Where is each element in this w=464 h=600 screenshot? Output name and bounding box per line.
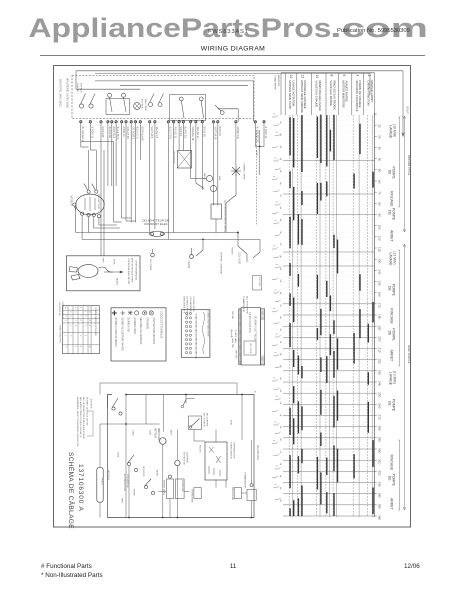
pressure switch wires [202,239,204,250]
svg-text:12: 12 [300,75,304,79]
svg-text:320: 320 [378,470,382,475]
svg-text:MOTEUR: MOTEUR [90,399,92,409]
legend text lines [114,318,154,352]
svg-text:FWS833AS1: FWS833AS1 [208,29,249,35]
svg-text:COURANT ELEC: COURANT ELEC [144,222,169,226]
chart header small row [280,73,282,115]
timer contact terminal [122,93,126,97]
wire drop x113.7 [113,142,115,223]
junction dots [237,232,239,234]
thermostat box [211,204,222,219]
wire right hook [259,239,261,252]
pump motor circle [175,460,180,465]
dashed option wire [255,130,257,225]
wire noir drop right [258,130,260,175]
svg-text:PERIODE CYCLE: PERIODE CYCLE [407,155,410,176]
svg-text:SUPPORT TERMINAL: SUPPORT TERMINAL [220,252,223,275]
svg-text:MOTEUR SENS ARRIERE: MOTEUR SENS ARRIERE [300,81,304,113]
svg-text:50: 50 [378,169,382,173]
svg-text:EPISSURE: EPISSURE [146,318,148,330]
lid switch symbols [127,462,130,465]
svg-text:BL ROUGE 14: BL ROUGE 14 [81,127,84,143]
svg-text:VIS TERRE: VIS TERRE [149,259,151,271]
svg-text:RINCAGE: RINCAGE [390,191,394,207]
wire elbow 80.8 to motor [81,146,89,148]
svg-text:MOTEUR MINUTERIE: MOTEUR MINUTERIE [341,81,345,108]
wire valve links [190,171,192,179]
cycle start arrow [402,71,404,136]
svg-text:30: 30 [378,147,382,151]
svg-text:120 VCA: 120 VCA [258,277,261,286]
connector wavy bracket [203,312,205,354]
schema top bus wire [100,383,237,395]
wire star to bus [235,175,237,195]
svg-text:THERMOSTAT: THERMOSTAT [191,489,194,503]
svg-text:VIOLET 2B: VIOLET 2B [126,127,129,139]
water valve V1 solenoids [206,175,212,181]
svg-text:CONNECTEUR: CONNECTEUR [133,318,135,335]
svg-text:MOTEUR: MOTEUR [107,470,109,480]
svg-text:COMMUTATEUR VITESSES: COMMUTATEUR VITESSES [94,308,97,337]
svg-text:SCHÉMA DE CÂBLAGE: SCHÉMA DE CÂBLAGE [67,452,76,529]
svg-text:BORNE DE COUPURE RAPIDE: BORNE DE COUPURE RAPIDE [120,318,123,352]
wire runs from timer terminals [81,123,264,256]
svg-text:CODES DE TERMINAUX: CODES DE TERMINAUX [160,311,163,339]
svg-text:360: 360 [378,515,382,520]
svg-text:MARCHE-ARRET: MARCHE-ARRET [370,81,374,103]
pump switch COMMUT POMPE [189,416,202,430]
svg-text:NOIR: NOIR [149,430,151,436]
svg-text:190: 190 [378,325,382,330]
wire to 115v drop [237,233,239,247]
svg-text:NOIR: NOIR [113,259,115,265]
svg-text:MINUTERIE: MINUTERIE [144,99,146,112]
svg-text:BRUN 18: BRUN 18 [202,127,205,138]
svg-text:REMPLISSAGE LAVAGE: REMPLISSAGE LAVAGE [318,81,322,112]
svg-text:BLEU: BLEU [170,430,172,436]
wire bus drop right [253,81,255,122]
timer motor hatch [135,104,139,108]
svg-text:AppliancePartsPros: AppliancePartsPros [29,13,332,43]
timer terminal row [80,121,266,123]
svg-text:MINUTERIE VUE: MINUTERIE VUE [183,297,185,314]
svg-text:DE: DE [387,401,391,406]
terminal strip right rail [261,309,265,365]
svg-text:MINUTERIE LAVE-LINGE: MINUTERIE LAVE-LINGE [59,79,62,107]
wire bus drop left [75,71,77,89]
terminal wire labels [81,127,267,143]
vca boxed label [253,276,262,291]
svg-text:NOIR 20: NOIR 20 [218,127,221,137]
legend symbol plus [121,311,126,316]
strip dimension arrow [231,330,233,337]
svg-text:BORNE A FOND DE MANCT: BORNE A FOND DE MANCT [114,318,117,348]
svg-text:13 MOT (MK): 13 MOT (MK) [234,330,236,343]
svg-text:8: 8 [330,75,334,77]
svg-text:POMPE DE VIDANGE: POMPE DE VIDANGE [358,81,362,108]
power cord plug drawing [78,264,98,277]
svg-text:LAVAGE-AGITATION: LAVAGE-AGITATION [292,81,296,106]
wire jumpers under timer [122,217,132,219]
svg-text:ARRET: ARRET [390,230,394,242]
svg-text:TER TES: TER TES [235,350,237,359]
chart dotted time gridlines [283,115,375,517]
timer switch contacts S2b pair [149,103,153,107]
timer sub-box contacts S3 [170,95,206,121]
terminal strip sub-box [244,341,256,355]
svg-text:DE LA MINUTERIE OU DES CONTACT: DE LA MINUTERIE OU DES CONTACTS [79,397,82,438]
motor top switch levers [84,184,88,191]
svg-text:(12 MIN): (12 MIN) [393,251,397,264]
svg-text:L'AXE: L'AXE [132,430,135,436]
svg-text:(16 MIN): (16 MIN) [393,124,397,137]
svg-text:170: 170 [378,303,382,308]
svg-text:TER MO: TER MO [231,311,233,319]
svg-text:(CH 1 PH): (CH 1 PH) [249,343,251,353]
svg-text:DE CHARPIE: DE CHARPIE [206,413,209,427]
svg-text:SOLENOIDE: SOLENOIDE [173,151,175,164]
svg-text:NOIR-BLANC: NOIR-BLANC [140,127,143,142]
timer switch contact S1b [89,104,93,108]
svg-text:CONNECTEUR MINUTERIE: CONNECTEUR MINUTERIE [207,310,209,337]
wire thermostat feeds [213,204,215,206]
svg-text:VALVE EAU FROIDE: VALVE EAU FROIDE [329,81,333,107]
svg-text:PRESSOSTAT: PRESSOSTAT [231,487,234,501]
svg-text:RINCAGE EAU FROIDE: RINCAGE EAU FROIDE [332,81,336,111]
connector J1 block [181,310,210,358]
chart cam numbers and function labels [289,75,371,79]
motor terminals [87,190,90,193]
svg-text:10 N-BL: 10 N-BL [195,352,197,360]
svg-text:WIRING DIAGRAM: WIRING DIAGRAM [201,46,266,53]
timer wire to S4 [218,108,239,110]
wire top bus 2 [95,72,370,74]
svg-text:CONTACT: CONTACT [76,83,79,94]
schema top switch [112,407,115,410]
svg-text:POMPE: POMPE [391,399,395,412]
svg-text:SUIVANT LE CYCLE CHOISI: SUIVANT LE CYCLE CHOISI [85,397,88,426]
timer contact terminal [199,97,203,101]
transformer T2 box [177,151,191,169]
timer motor circle MOTEUR MINUTERIE [160,438,167,445]
svg-text:100: 100 [378,225,382,230]
svg-text:ARRET: ARRET [390,350,394,362]
svg-text:10: 10 [315,75,319,79]
connector pin labels [195,313,197,360]
svg-text:90: 90 [378,214,382,218]
svg-text:MOTEUR: MOTEUR [70,196,73,207]
timer motor M1 symbol [134,103,141,110]
svg-text:ESSORAGE-VIDANGE: ESSORAGE-VIDANGE [303,81,307,109]
svg-text:MOTEUR SENS AVANT: MOTEUR SENS AVANT [288,81,292,110]
svg-text:290: 290 [378,437,382,442]
svg-text:310: 310 [378,459,382,464]
svg-text:260: 260 [378,403,382,408]
svg-text:GRIS 10B: GRIS 10B [101,127,104,138]
svg-text:MOTEUR: MOTEUR [141,99,143,109]
dispenser box with top circle [166,479,173,499]
overload OL star symbol [231,166,241,176]
svg-text:(TE) 120 VCA: (TE) 120 VCA [256,445,259,460]
svg-text:LAVAGE: LAVAGE [388,125,392,139]
svg-text:BLANC 8A: BLANC 8A [108,127,111,139]
legend table grid [63,306,100,354]
svg-text:VERT: VERT [121,498,123,504]
temperature switch box [205,442,227,480]
chart header top line [281,72,375,74]
svg-text:TEMPERATURE: TEMPERATURE [233,442,236,459]
svg-text:DE: DE [387,331,391,336]
svg-text:14: 14 [289,75,293,79]
svg-text:300: 300 [378,448,382,453]
svg-text:(VOIR REMARQUE): (VOIR REMARQUE) [134,260,137,280]
svg-text:330: 330 [378,482,382,487]
svg-text:VERT: VERT [102,258,104,264]
wire thermostat to bus [215,219,217,233]
svg-text:20: 20 [378,135,382,139]
svg-text:NOIR: NOIR [230,420,232,426]
schema junction dots [125,423,127,425]
svg-text:COUVERCLE: COUVERCLE [126,474,128,488]
chart contact symbol column [272,114,281,500]
svg-text:270: 270 [378,415,382,420]
svg-text:DE L'ESSOREUSE: DE L'ESSOREUSE [245,296,247,315]
header rule line [40,55,425,57]
right small component [247,489,256,500]
svg-text:ORANGE 16: ORANGE 16 [191,127,194,141]
ground screw terminal [151,253,155,257]
svg-text:130: 130 [378,258,382,263]
wire motor bottom drops [81,215,83,239]
timer T1 dashed enclosure MINUTERIE LAVE-LINGE [72,76,254,119]
svg-text:PONT: PONT [100,478,103,485]
svg-text:DEBUT: DEBUT [406,106,408,114]
svg-text:10: 10 [378,124,382,128]
wire main horizontal y239.4 [82,238,260,240]
svg-text:COBALT BL: COBALT BL [236,127,239,141]
schema small switch mid [144,485,147,488]
svg-text:240: 240 [378,381,382,386]
legend symbol circle [135,311,139,315]
svg-text:NOIR BL 6: NOIR BL 6 [112,127,115,139]
svg-text:60: 60 [378,180,382,184]
svg-text:115V. 60HZ.: 115V. 60HZ. [238,252,240,265]
second dispenser box [176,479,185,499]
svg-text:POMPE: POMPE [391,284,395,297]
svg-text:PROTECTEUR MOTEUR: PROTECTEUR MOTEUR [152,318,154,345]
timer contact terminal [179,97,183,101]
svg-text:MINUTERIE: MINUTERIE [277,75,279,87]
schema inner vertical left [125,395,127,518]
svg-text:DE: DE [387,170,391,175]
svg-text:11: 11 [230,563,237,570]
svg-text:# Functional Parts: # Functional Parts [41,563,92,570]
svg-text:DE 60 HZ 120 VCA: DE 60 HZ 120 VCA [248,312,251,333]
svg-text:REMARQUE: LA LETTRE INDIQUE LA: REMARQUE: LA LETTRE INDIQUE LA POSITION [76,397,79,447]
wire bottom jumpers [94,227,120,229]
breaker CB1 symbol [150,231,165,236]
terminal strip hatch bar [239,309,242,365]
svg-text:200: 200 [378,336,382,341]
wire bus drop x370 [369,73,371,95]
legend box COULEURS DE TERMINAUX [111,308,166,361]
top bus switch lever [183,399,187,406]
ground terminal TERRE [190,255,194,259]
timer internal bus wire 2 [120,84,248,86]
svg-text:NETTOYEUR: NETTOYEUR [203,413,205,427]
svg-text:LA POMPE: LA POMPE [186,452,189,464]
svg-text:(10 MIN): (10 MIN) [393,371,397,384]
svg-text:BORNE A VIS: BORNE A VIS [127,318,130,333]
diagram outer frame [54,66,411,528]
svg-text:POMPE: POMPE [391,328,395,341]
svg-text:CORDON ALIMENTATION: CORDON ALIMENTATION [127,258,130,284]
wire motor left drop [75,205,77,233]
timer contact terminal [108,93,112,97]
svg-text:280: 280 [378,426,382,431]
chart cam track lines [289,115,372,517]
svg-text:MOTEUR DE: MOTEUR DE [183,452,185,466]
svg-text:ROUGE: ROUGE [199,445,201,453]
svg-text:JAUNE 7D: JAUNE 7D [155,127,158,139]
svg-text:EAU: EAU [218,176,221,181]
svg-text:RINCAGE: RINCAGE [390,455,394,471]
svg-text:SECURITE COUVERCLE: SECURITE COUVERCLE [355,81,359,112]
svg-text:TERRE: TERRE [187,261,189,269]
svg-text:OR ROSE 1: OR ROSE 1 [131,127,134,141]
svg-text:COMMUTATEUR: COMMUTATEUR [242,296,245,313]
saco box [194,488,201,499]
svg-text:12/06: 12/06 [404,563,420,570]
svg-text:230: 230 [378,370,382,375]
svg-text:TOUCHES DU: TOUCHES DU [58,302,60,317]
svg-text:CAM No FONCTION: CAM No FONCTION [367,81,371,106]
svg-text:TERRE: TERRE [231,247,233,255]
timer internal bus wire 3 [76,88,140,90]
connector header label [183,297,195,318]
svg-text:NOIR 13: NOIR 13 [179,127,182,137]
power cord box [67,256,141,291]
svg-text:BLANC: BLANC [156,470,159,477]
svg-text:MOTEUR: MOTEUR [154,428,156,438]
svg-text:DE: DE [387,286,391,291]
svg-text:220: 220 [378,359,382,364]
svg-text:BLANC: BLANC [116,278,119,286]
svg-text:INTERRUPTEUR: INTERRUPTEUR [123,474,125,492]
timer sub-box contacts S2 [106,99,130,115]
svg-text:BLANC 15: BLANC 15 [184,127,187,139]
svg-text:SOLENOIDE: SOLENOIDE [181,480,183,492]
svg-text:N NOIR 12: N NOIR 12 [90,127,93,139]
chart time scale axis [374,113,376,517]
svg-text:150: 150 [378,281,382,286]
svg-text:VERT JA 19: VERT JA 19 [214,127,217,141]
svg-text:TAN BR 17: TAN BR 17 [196,127,199,140]
chart closed-contact bars [290,115,373,516]
svg-text:2EME SERVICE: 2EME SERVICE [407,345,410,364]
svg-text:6: 6 [342,75,346,77]
svg-text:LAVE TER: LAVE TER [231,338,234,348]
svg-text:MOTEUR: MOTEUR [80,83,82,93]
svg-text:BLK-6 (BLK): BLK-6 (BLK) [116,127,119,141]
svg-text:BLEU CL 3: BLEU CL 3 [136,127,139,140]
svg-text:POMPE: POMPE [391,474,395,487]
power cord body and arrow [99,267,113,272]
svg-text:COMPTE-TOURS: COMPTE-TOURS [243,163,245,180]
legend symbol circle-star [149,311,153,315]
chart phase labels right [387,124,396,510]
svg-text:VALVE EAU CHAUDE: VALVE EAU CHAUDE [314,81,318,108]
svg-text:LAVAGE: LAVAGE [388,372,392,386]
svg-text:120: 120 [378,247,382,252]
svg-text:160: 160 [378,292,382,297]
wire crossbar y141.5 [81,141,114,143]
schema wires inner web [100,395,252,518]
svg-text:BL ROUGE 14: BL ROUGE 14 [255,127,258,143]
motor B1 ellipse [76,194,104,215]
svg-text:340: 340 [378,493,382,498]
svg-text:TERRE: TERRE [133,489,135,496]
svg-text:MINUTERIE POS.: MINUTERIE POS. [59,326,61,344]
svg-text:Publication No. 5995530309: Publication No. 5995530309 [337,28,410,34]
svg-text:LUXE: LUXE [117,452,119,458]
schema note text block [76,397,88,447]
svg-text:DE L'INTERRUPTEUR DE LA MINUTE: DE L'INTERRUPTEUR DE LA MINUTERIE [82,397,85,439]
svg-text:DE FACE OPPOSEE: DE FACE OPPOSEE [186,297,189,318]
contact column tiny labels [279,121,282,502]
svg-text:ROUGE 11: ROUGE 11 [174,127,177,140]
svg-text:NOIR: NOIR [255,150,257,156]
terminal strip text box [241,308,260,366]
svg-text:ARRET: ARRET [390,498,394,510]
svg-text:* Non-Illustrated Parts: * Non-Illustrated Parts [41,572,103,579]
legend table tiny marks [64,307,90,348]
svg-text:DE: DE [387,210,391,215]
svg-text:COMM. ARBRE: COMM. ARBRE [274,75,277,90]
svg-text:POMPE: POMPE [391,167,395,180]
svg-text:350: 350 [378,504,382,509]
volts box [234,488,241,499]
motor inner windings [84,198,86,210]
chart bracket lines right [398,116,406,510]
schema wire loop outer [108,395,255,518]
svg-text:AVANCE RAPIDE: AVANCE RAPIDE [345,81,349,103]
svg-text:(VUE ARRIERE): (VUE ARRIERE) [189,297,192,313]
svg-text:140: 140 [378,269,382,274]
svg-text:ROSE 4C: ROSE 4C [122,127,125,138]
svg-text:2: 2 [367,75,371,77]
svg-text:COMMUTATEUR: COMMUTATEUR [230,442,233,459]
svg-text:PROTECTEUR: PROTECTEUR [97,194,99,209]
svg-text:BLEU FO 9: BLEU FO 9 [169,127,172,140]
svg-text:MINUTERIE LAVE-LINGE: MINUTERIE LAVE-LINGE [66,78,70,108]
wire horizontal y146.5 node [255,146,264,148]
svg-text:137106300 A: 137106300 A [77,464,84,512]
svg-text:80: 80 [378,202,382,206]
svg-text:180: 180 [378,314,382,319]
svg-text:MINUTERIE: MINUTERIE [157,428,159,441]
timer switch contact S4 [220,111,224,115]
svg-text:4: 4 [355,75,359,77]
chart time scale ticks and numbers [375,114,377,516]
svg-text:LAVAGE: LAVAGE [388,253,392,267]
svg-text:DE: DE [387,476,391,481]
schema note bracket [87,411,93,436]
svg-text:40: 40 [378,158,382,162]
svg-text:VERT JA 5: VERT JA 5 [150,127,153,139]
timer internal bus wire [95,80,254,82]
svg-text:RINCAGE: RINCAGE [390,308,394,324]
